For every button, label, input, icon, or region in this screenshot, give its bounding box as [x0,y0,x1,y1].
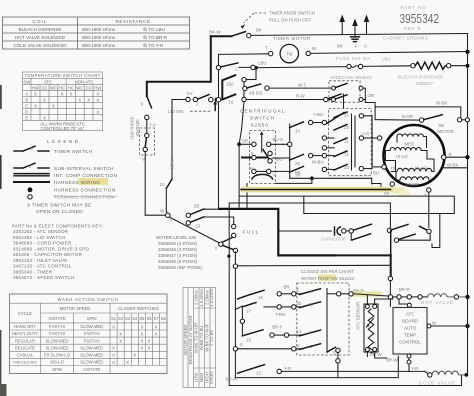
svg-text:X: X [87,98,90,103]
svg-text:X: X [155,331,158,336]
svg-text:W-BK TO BU: W-BK TO BU [199,326,204,351]
svg-text:☒ TO Y-R: ☒ TO Y-R [143,43,164,48]
svg-text:BLEACH DISPENSE: BLEACH DISPENSE [19,27,62,32]
svg-text:WASH ACTION SWITCH: WASH ACTION SWITCH [57,297,118,302]
svg-text:X TIMER SWITCH MAY BE: X TIMER SWITCH MAY BE [27,203,92,208]
svg-text:3366846 (5 POSN): 3366846 (5 POSN) [158,259,198,264]
svg-text:X: X [34,92,37,97]
power cord prong arrow L [339,15,369,34]
svg-text:B: B [309,302,312,307]
svg-text:X: X [96,92,99,97]
svg-text:S2: S2 [118,316,124,321]
motor terminal bottom BK [390,182,394,186]
svg-text:COLD VALVE: COLD VALVE [419,380,456,385]
svg-text:MOTOR SPEED: MOTOR SPEED [183,325,188,356]
svg-text:X: X [155,324,158,329]
legend timer switch symbol [14,150,23,152]
svg-text:X: X [126,360,129,365]
svg-text:LEGEND: LEGEND [47,139,80,144]
svg-text:33: 33 [344,165,349,170]
svg-text:V: V [142,157,145,162]
svg-text:BLEACH DISPENSE: BLEACH DISPENSE [398,75,444,80]
motor internal links [386,151,396,172]
svg-text:SLOW-MED: SLOW-MED [80,360,103,365]
svg-text:MOTOR: MOTOR [438,129,454,134]
grid dashed box [329,109,372,176]
svg-text:800-1200 Ohms: 800-1200 Ohms [82,43,116,48]
svg-text:X: X [148,339,151,344]
svg-text:BR: BR [284,285,290,290]
hot valve coil L1 [428,294,448,297]
temp switch C [299,344,320,350]
svg-text:5B: 5B [439,123,444,128]
svg-text:14: 14 [297,329,302,334]
svg-text:W-BK: W-BK [436,101,447,106]
legend harness wiring highlight [78,178,108,185]
svg-text:3455817: 3455817 [416,81,434,86]
svg-text:S7: S7 [154,316,160,321]
svg-text:3366845 (INF POSN): 3366845 (INF POSN) [158,265,202,270]
svg-text:HI: HI [391,166,395,171]
svg-text:OR: OR [368,93,375,98]
svg-text:17: 17 [246,309,251,314]
timer switch 34 [290,166,304,172]
svg-text:TIMER MOTOR: TIMER MOTOR [273,36,311,41]
svg-text:X: X [112,353,115,358]
wire BU to motor [372,166,382,168]
scanner edge artifacts [0,155,2,189]
right bus wire [467,34,469,297]
timer switch 14 [290,122,304,128]
svg-text:HARNESS WIRING: HARNESS WIRING [54,180,100,185]
coil resistance table [3,17,190,49]
svg-text:4b: 4b [297,301,302,306]
bank timer switch 17 [235,306,242,310]
svg-text:800-1200 Ohms: 800-1200 Ohms [82,35,116,40]
svg-text:SLOW-MED: SLOW-MED [80,345,103,350]
temp switch F [299,330,320,336]
svg-text:X: X [119,331,122,336]
power cord prong arrow R [366,22,368,34]
svg-text:16: 16 [258,295,263,300]
svg-text:LOW: LOW [194,373,199,383]
svg-text:HW: HW [94,85,101,90]
motor winding HI-LO upper [390,147,421,150]
svg-text:LBU: LBU [382,57,391,62]
svg-text:BK-W: BK-W [170,157,175,169]
svg-text:R: R [250,166,253,171]
timer switch 16 [222,94,235,99]
svg-text:C: C [25,103,28,108]
svg-text:T: T [265,46,268,51]
svg-text:WC: WC [76,85,83,90]
svg-text:21: 21 [344,113,349,118]
svg-text:4B SIS: 4B SIS [249,91,263,96]
wire empty to P [234,252,236,264]
svg-text:S3: S3 [125,316,131,321]
svg-text:3954573 - SPEED SWITCH: 3954573 - SPEED SWITCH [13,275,74,280]
node junction OR [237,142,241,146]
timer switch 26 [290,154,304,160]
wash action switch table [10,294,168,374]
svg-text:☒ TO LBU: ☒ TO LBU [143,27,165,32]
legend terminal connection circle [28,195,32,199]
svg-text:26: 26 [295,161,300,166]
svg-text:AUTO: AUTO [404,326,417,331]
svg-text:X: X [112,360,115,365]
svg-text:RESISTANCE AT MOTOR: RESISTANCE AT MOTOR [188,315,193,364]
svg-text:HOT VALVE SOLENOID: HOT VALVE SOLENOID [15,35,66,40]
svg-text:BR-R: BR-R [399,287,410,292]
svg-text:TIMER KNOB SWITCH: TIMER KNOB SWITCH [269,11,315,16]
svg-text:10: 10 [160,182,165,187]
sensor wires [366,295,368,305]
svg-text:SPEED SW 3954573: SPEED SW 3954573 [330,75,372,80]
svg-text:SLOW-MED: SLOW-MED [46,338,69,343]
node junction right bus motor [465,155,469,159]
bank timer switch 12 [238,369,252,373]
svg-text:☒ TO BR-R: ☒ TO BR-R [143,35,168,40]
speed switch dashed box [329,81,360,102]
svg-text:BK: BK [256,28,262,33]
svg-text:14: 14 [295,129,300,134]
temp switch B [299,302,320,308]
svg-text:REV B: REV B [404,26,421,31]
wire 16-row into grid [324,97,328,101]
svg-text:FAST-HI: FAST-HI [84,338,100,343]
svg-text:E: E [25,115,28,120]
svg-text:S8: S8 [161,316,167,321]
timer switch 5B [186,213,190,217]
svg-text:HEAVY DUTY: HEAVY DUTY [12,331,39,336]
svg-text:D: D [25,109,28,114]
svg-text:F: F [309,330,312,335]
svg-text:BU-O: BU-O [273,137,285,142]
temp switch A [299,289,320,295]
svg-text:R-W: R-W [296,94,306,99]
svg-text:BR-W: BR-W [226,377,239,382]
svg-text:Y-R: Y-R [411,366,418,371]
svg-text:A: A [309,289,312,294]
svg-text:INT. COMP CONNECTION: INT. COMP CONNECTION [54,173,117,178]
water temp dashed box [297,283,349,355]
heavy start wire [336,254,391,256]
cold valve coil L2 [432,371,458,375]
timer switch 9 [147,96,152,108]
svg-text:X: X [52,104,55,109]
svg-text:X: X [141,324,144,329]
svg-text:SPIN: SPIN [52,367,62,372]
centrifugal contacts row1 [241,143,252,145]
wire box bottom right [276,178,312,183]
svg-text:CENTRIFUGAL: CENTRIFUGAL [240,109,286,114]
temperature switch chart [23,72,103,131]
timer switch 11 [334,138,347,144]
svg-text:X: X [70,92,73,97]
svg-text:S4: S4 [132,316,138,321]
motor winding HI HI-LO lower [397,168,432,171]
svg-text:TIMER SWITCH: TIMER SWITCH [54,149,92,154]
svg-text:X: X [43,98,46,103]
svg-text:8314869 - MOTOR, DRIVE-3 SPD: 8314869 - MOTOR, DRIVE-3 SPD [13,246,89,251]
svg-text:T-BN: T-BN [275,312,285,317]
svg-text:3407125 - ATC CONTROL: 3407125 - ATC CONTROL [13,264,72,269]
svg-text:661605 - CAPACITOR-MOTOR: 661605 - CAPACITOR-MOTOR [13,252,83,257]
svg-text:Y-R: Y-R [362,132,369,137]
motor switch row2 [351,233,352,240]
timer switch 21 [334,112,347,118]
svg-text:TEMP: TEMP [404,333,416,338]
svg-text:X: X [112,324,115,329]
node grid bottom junction [310,176,314,180]
parts key text block [12,224,103,281]
svg-text:AGITATE: AGITATE [83,367,101,372]
harness wiring highlighted wire [241,187,393,193]
svg-text:X: X [112,346,115,351]
svg-text:OR-W: OR-W [370,352,383,357]
legend [14,139,118,214]
svg-text:3952164 - INLET VALVE: 3952164 - INLET VALVE [13,258,68,263]
svg-text:LID SW.: LID SW. [168,109,184,114]
svg-text:W-BK: W-BK [447,162,458,167]
svg-text:3352282 - ATC SENSOR: 3352282 - ATC SENSOR [13,229,69,234]
svg-text:31: 31 [344,152,349,157]
svg-text:FAST-HI: FAST-HI [49,331,65,336]
svg-text:CONTROL: CONTROL [399,340,421,345]
svg-text:BK: BK [295,170,301,175]
2nd rinse switch dashed box [140,128,155,155]
svg-text:PART NO: PART NO [401,5,427,10]
svg-text:3366847 (4 POSN): 3366847 (4 POSN) [158,253,198,258]
speed switch outputs [363,88,375,120]
svg-text:P: P [229,266,232,271]
speed switch contacts [332,86,336,90]
water level switch EMPTY contact [223,245,234,249]
motor winding MED [397,134,423,137]
svg-text:HC: HC [59,85,65,90]
svg-text:13: 13 [195,224,200,229]
svg-text:W-BU: W-BU [312,160,324,165]
bleach dispense resistor [411,63,415,67]
svg-text:WATER TEMP SW 661615: WATER TEMP SW 661615 [301,276,354,281]
svg-text:FAST-HI: FAST-HI [84,331,100,336]
svg-text:Y TO BK: Y TO BK [209,330,214,347]
timer switch 25 [334,125,347,131]
svg-text:A: A [364,44,367,49]
svg-text:LBU: LBU [258,61,267,66]
motor terminal left BU [382,165,386,169]
bank P row [233,347,237,351]
svg-text:OPEN OR CLOSED: OPEN OR CLOSED [36,209,83,214]
left bank bus [234,268,236,377]
svg-text:SWITCH: SWITCH [250,116,275,121]
svg-text:R: R [251,152,254,157]
svg-text:FAST-HI: FAST-HI [49,324,65,329]
grid left vertical [289,124,291,178]
svg-text:GY: GY [187,91,193,96]
svg-text:X: X [43,116,46,121]
svg-text:W-T: W-T [298,83,307,88]
svg-text:EX SLOW-LO: EX SLOW-LO [44,353,71,358]
timer switch 33 [334,165,347,171]
svg-text:C: C [309,344,312,349]
svg-text:T: T [228,228,231,233]
centrifugal arc [252,174,273,179]
svg-text:X: X [34,104,37,109]
svg-text:HANG DRY: HANG DRY [14,324,36,329]
svg-text:5B: 5B [194,204,199,209]
water level sw text block [156,235,202,270]
svg-text:BR-Y: BR-Y [272,324,283,329]
svg-text:SLOW-MED: SLOW-MED [46,345,69,350]
svg-text:Y: Y [424,193,427,198]
svg-text:BU: BU [277,156,283,161]
svg-text:11: 11 [344,139,349,144]
node junction V [166,213,170,217]
water level switch common V [219,242,223,246]
centrifugal actuator arrow [261,135,263,153]
wire BK-W vertical [171,100,173,180]
svg-text:MOTOR SPEED: MOTOR SPEED [60,306,91,311]
svg-text:3948683 - CORD-POWER: 3948683 - CORD-POWER [13,241,72,246]
sensor thermistor zigzag [368,309,374,353]
svg-text:HI-LO: HI-LO [396,154,408,159]
bottom bus wire [235,356,398,378]
svg-text:MED: MED [405,142,415,147]
svg-text:X: X [78,98,81,103]
svg-text:CYCLE: CYCLE [18,311,32,316]
grid internal bus pair [351,114,353,170]
svg-text:600-1800 Ohms: 600-1800 Ohms [82,27,116,32]
svg-text:16: 16 [229,100,234,105]
svg-text:FULL: FULL [243,230,261,235]
centrifugal dashed box [250,130,276,183]
svg-text:COLD VALVE SOLENOID: COLD VALVE SOLENOID [13,43,67,48]
svg-text:3955342: 3955342 [400,11,440,26]
svg-text:WATER LEVEL SW: WATER LEVEL SW [156,235,197,240]
svg-text:X: X [141,346,144,351]
node junction lid row [215,98,219,102]
svg-text:CC: CC [86,85,92,90]
svg-text:W-BK TO W-OR: W-BK TO W-OR [194,323,199,353]
svg-text:BR-W: BR-W [386,358,399,363]
svg-text:FUSE 500 MA: FUSE 500 MA [336,56,371,61]
fuse F1 [347,64,351,68]
timer switch 31 [334,151,347,157]
svg-text:3366848 (3 POSN): 3366848 (3 POSN) [158,247,198,252]
svg-text:Y-BU: Y-BU [313,112,323,117]
svg-text:B: B [25,97,28,102]
wire V diagonal to water level [169,217,219,243]
svg-text:TEMPERATURE SWITCH CHART: TEMPERATURE SWITCH CHART [24,73,101,78]
svg-text:CASUAL: CASUAL [17,353,34,358]
wire bus y196 [239,196,454,213]
motor terminal bottom Y [427,188,431,192]
svg-text:X: X [141,339,144,344]
svg-text:MED: MED [199,373,204,382]
svg-text:PART No & ELECT COMPONENTS KEY: PART No & ELECT COMPONENTS KEY: [12,224,103,229]
svg-text:S6: S6 [146,316,152,321]
temp sw internal bus [326,289,328,353]
heavy harness wire left L [147,36,211,96]
svg-text:HW: HW [32,85,39,90]
svg-text:CLOSED SW PER CHART: CLOSED SW PER CHART [301,269,354,274]
svg-text:25: 25 [344,125,349,130]
svg-text:A: A [25,91,28,96]
wire box bottom left down [246,183,248,207]
timer knob switch SW [211,35,232,37]
svg-text:HARNESS CONNECTION: HARNESS CONNECTION [54,188,116,193]
node right bus top junction [465,50,469,54]
svg-text:BK-W: BK-W [209,30,221,35]
wire W-BK to right [375,107,461,118]
wire W-BK lower [441,167,468,169]
svg-text:BU: BU [373,171,379,176]
svg-text:P: P [240,342,243,347]
svg-text:V: V [273,172,276,177]
svg-text:OR: OR [242,139,249,144]
svg-text:X: X [96,98,99,103]
svg-text:TM: TM [286,52,293,57]
svg-text:SW: SW [23,79,30,84]
svg-text:V: V [215,246,218,251]
motor speed resistance rotated table [183,288,216,388]
bank timer switch 16 [238,295,251,299]
cabinet ground symbol [354,34,356,37]
svg-text:CAPACITOR: CAPACITOR [321,237,346,242]
svg-text:Y-R: Y-R [284,366,291,371]
svg-text:SLOW-MED: SLOW-MED [80,324,103,329]
motor switch row1 [353,224,371,230]
svg-text:HC: HC [68,85,74,90]
svg-text:START: START [405,182,419,187]
svg-text:T-V: T-V [149,123,156,128]
svg-text:3949180: 3949180 [135,119,140,137]
legend sub-interval switch symbol [14,167,23,169]
svg-text:SPIN: SPIN [87,316,97,321]
ATC right W wire [427,324,431,328]
svg-text:X: X [96,110,99,115]
harness thick wire to capacitor [219,209,336,256]
svg-text:PULL ON PUSH OFF: PULL ON PUSH OFF [269,18,311,23]
svg-text:CABINET GROUND: CABINET GROUND [383,36,428,41]
svg-text:COIL: COIL [33,19,48,24]
svg-text:ATC: ATC [44,79,52,84]
svg-text:SIS-LO: SIS-LO [50,360,64,365]
svg-text:X: X [141,331,144,336]
svg-text:AGITATE: AGITATE [48,316,66,321]
centrifugal contacts row2 [242,157,268,159]
svg-text:3366849 (2 POSN): 3366849 (2 POSN) [158,241,198,246]
svg-text:X: X [119,339,122,344]
svg-text:WC: WC [50,85,57,90]
svg-text:RESISTANCE: RESISTANCE [115,19,150,24]
sub-interval switch 4B SIS [243,86,247,90]
svg-text:BOARD: BOARD [402,319,418,324]
svg-text:12: 12 [256,371,261,376]
left bus from 16 terminal down [239,102,244,207]
svg-text:HOT VALVE: HOT VALVE [421,300,454,305]
node lid bus vertical [218,54,220,209]
grid mid terminals [322,136,326,140]
svg-text:ATC SENSOR: ATC SENSOR [356,302,361,330]
svg-text:CLOSED SWITCHES: CLOSED SWITCHES [118,306,159,311]
timer switch 10 [166,179,172,189]
svg-text:16A: 16A [226,82,234,87]
legend harness connection dot [28,187,33,192]
svg-text:X: X [148,346,151,351]
svg-text:HI-LO: HI-LO [415,166,427,171]
